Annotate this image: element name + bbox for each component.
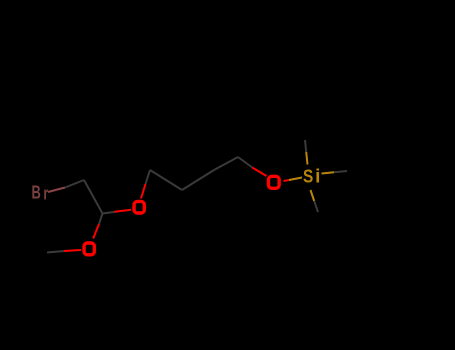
bond Si-CH3 up (Si half) (306, 152, 307, 165)
bond O2-CH3 (O half) (64, 250, 81, 251)
bond Cd-O3 (O half) (252, 168, 266, 177)
bond C-O2 (C half) (99, 214, 103, 225)
chain bond Cc-Cd (214, 157, 238, 170)
bond C-O1 (O half) (115, 210, 132, 212)
atom O2 methoxy (84, 243, 94, 255)
atom Si (303, 165, 320, 187)
bond Br-CH2 (C half) (65, 180, 84, 188)
bond C-O2 (O half) (93, 224, 99, 239)
bond Si-CH3 right (C half) (334, 171, 347, 172)
bond CH2-C acetal (84, 180, 103, 214)
atom O3 silyl ether (268, 176, 279, 188)
bond O2-CH3 (C half) (47, 251, 64, 253)
svg-text:B: B (32, 184, 41, 204)
atom O1 ether (134, 201, 144, 213)
bond O3-Si (O half) (284, 180, 290, 181)
bond C-O1 (C half) (103, 212, 118, 214)
bond Si-CH3 up (C half) (305, 140, 306, 152)
svg-text:r: r (43, 184, 48, 204)
bond Br-CH2 (Br half) (48, 188, 65, 193)
bond Si-CH3 right (Si half) (322, 172, 335, 173)
chain bond Cb-Cc (182, 170, 214, 190)
atom Br (32, 184, 49, 205)
bond O1-Ca (C half) (146, 170, 151, 184)
bond O1-Ca (O half) (141, 184, 146, 199)
svg-text:i: i (315, 167, 320, 188)
bond Si-CH3 down (C half) (314, 201, 318, 212)
chain bond Ca-Cb (150, 170, 182, 190)
bond Si-CH3 down (Si half) (311, 190, 315, 201)
bond O3-Si (Si half) (289, 178, 302, 181)
bond Cd-O3 (C half) (238, 157, 252, 168)
svg-text:S: S (303, 165, 313, 187)
